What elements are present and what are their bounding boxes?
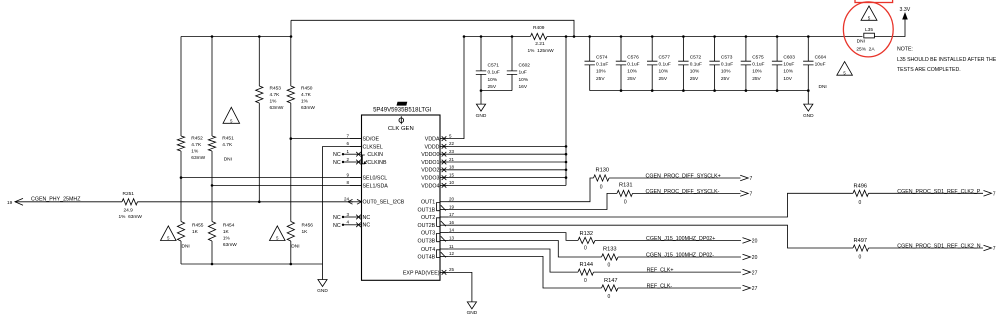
svg-text:VDDO3: VDDO3 [421,176,439,182]
svg-text:24: 24 [344,197,350,202]
svg-text:0.1uF: 0.1uF [690,62,702,68]
wire OUT1B feed [448,193,617,209]
svg-text:R144: R144 [580,262,594,268]
svg-text:OUT1: OUT1 [421,200,435,206]
svg-text:OUT3B: OUT3B [418,238,436,244]
svg-text:0.1uF: 0.1uF [721,62,733,68]
svg-text:CGEN_PROC_SD1_REF_CLK2_P: CGEN_PROC_SD1_REF_CLK2_P [897,189,980,195]
svg-text:10%: 10% [783,69,793,75]
wire R130 to port [609,177,741,179]
wire cap bank bottom rail [590,90,809,92]
svg-text:63mW: 63mW [223,242,237,248]
svg-text:13: 13 [449,235,455,240]
wire OUT2B to R497 [448,225,853,248]
svg-text:1%: 1% [223,236,231,242]
port 7 sd1 clk2 p [984,191,992,197]
wire left gnd rail [181,263,323,265]
svg-text:5P49V5935B518LTGI: 5P49V5935B518LTGI [373,108,432,114]
svg-text:CGEN_PROC_DIFF_SYSCLK+: CGEN_PROC_DIFF_SYSCLK+ [646,173,721,179]
svg-text:C573: C573 [721,55,733,61]
junction at 566,154 [565,153,568,156]
wire OUT4B feed [448,256,602,288]
resistor R455 [177,222,184,242]
svg-text:0: 0 [608,294,611,300]
svg-text:27: 27 [752,286,758,292]
svg-text:R452: R452 [191,136,203,142]
junction at 777,91 [776,89,779,92]
capacitor C572 [678,37,688,91]
svg-text:R497: R497 [854,238,868,244]
svg-text:NC: NC [363,215,371,221]
DNI flag triangle near R456 [270,226,286,241]
junction at 291,139 [290,137,293,140]
svg-text:OUT1B: OUT1B [418,207,436,213]
wire VDDA node rail [464,36,530,38]
wire rail jog at x291 [290,20,292,36]
svg-text:1K: 1K [302,229,309,235]
svg-text:GND: GND [467,310,478,316]
svg-text:CGEN_J15_100MHZ_DP02+: CGEN_J15_100MHZ_DP02+ [646,236,715,242]
wire VDD pin to bus [448,145,566,147]
svg-text:10uF: 10uF [815,62,826,68]
svg-text:SEL0/SCL: SEL0/SCL [363,176,388,182]
svg-text:10%: 10% [519,77,529,83]
svg-text:NC: NC [333,215,341,221]
svg-text:7: 7 [993,246,996,252]
wire OUT3B feed [448,241,602,258]
capacitor C571 [476,37,486,91]
svg-text:1K: 1K [192,229,199,235]
port 7 sysclk- [740,191,748,197]
junction at 212,36 [211,35,214,38]
junction at 291,36 [290,35,293,38]
wire OUT4 feed [448,249,578,272]
svg-text:4.7K: 4.7K [191,142,202,148]
svg-text:SEL1/SDA: SEL1/SDA [363,183,389,189]
wire R144 to port [594,271,742,273]
ground GND exp pad [467,302,476,309]
wire upper 3.3V link [291,20,574,36]
svg-text:4.7K: 4.7K [301,92,312,98]
junction at 715,91 [713,89,716,92]
svg-text:7: 7 [750,192,753,198]
junction at 259,36 [258,35,261,38]
svg-text:20: 20 [752,255,758,261]
svg-text:0: 0 [624,200,627,206]
svg-text:DNI: DNI [857,39,865,45]
svg-text:CLK GEN: CLK GEN [388,126,414,132]
svg-text:VDDO4: VDDO4 [421,183,439,189]
svg-text:2.21: 2.21 [535,41,545,47]
svg-text:10%: 10% [690,69,700,75]
wire C571-C602 bottom [481,90,512,92]
svg-text:25V: 25V [752,76,761,82]
wire VDD pin to bus [448,177,566,179]
svg-text:C602: C602 [519,62,531,68]
junction at 746,36 [745,35,748,38]
svg-text:27: 27 [752,270,758,276]
wire VDD pin to bus [448,153,566,155]
red highlight rectangle (cut off at top) [855,0,893,3]
svg-text:3.3V: 3.3V [900,7,911,13]
svg-text:20: 20 [449,197,455,202]
junction at 181,178 [180,176,183,179]
svg-text:NC: NC [333,223,341,229]
svg-text:14: 14 [449,227,455,232]
resistor R496 [853,190,869,196]
red highlight ellipse [843,2,893,57]
junction at 683,91 [682,89,685,92]
svg-text:DNI: DNI [819,84,827,90]
svg-text:R496: R496 [854,183,868,189]
svg-text:C603: C603 [783,55,795,61]
svg-text:OUT4B: OUT4B [418,254,436,260]
svg-text:NC: NC [363,223,371,229]
svg-text:C577: C577 [659,55,671,61]
ground GND below C571 [476,91,485,112]
svg-text:CLKSEL: CLKSEL [363,144,383,150]
svg-text:C572: C572 [690,55,702,61]
port 7 sd1 clk2 n [984,245,992,251]
wire R496 to port [869,192,984,194]
wire input to R251 [15,201,122,203]
resistor R454 [208,222,215,242]
svg-text:10%: 10% [752,69,762,75]
svg-text:25V: 25V [627,76,636,82]
svg-text:GND: GND [803,113,814,119]
svg-text:C604: C604 [815,55,827,61]
port 20 dp02- [743,254,751,260]
wire R133 to port [618,256,741,258]
svg-text:1K: 1K [223,229,230,235]
svg-text:GND: GND [317,288,328,294]
svg-text:24.9: 24.9 [124,207,134,213]
resistor R497 [853,245,869,251]
junction at 652,36 [651,35,654,38]
svg-text:CLKINB: CLKINB [367,160,387,166]
junction at 808,36 [807,35,810,38]
svg-text:20: 20 [752,239,758,245]
svg-text:OUT0_SEL_I2CB: OUT0_SEL_I2CB [363,200,405,206]
port 20 dp02+ [743,238,751,244]
resistor R251 [122,199,138,205]
svg-text:25V: 25V [690,76,699,82]
junction at 746,91 [745,89,748,92]
svg-text:R453: R453 [270,86,282,92]
svg-text:TESTS ARE COMPLETED.: TESTS ARE COMPLETED. [897,67,961,73]
wire OUT2 to R496 [448,193,853,217]
svg-text:CGEN_J15_100MHZ_DP02-: CGEN_J15_100MHZ_DP02- [646,253,714,259]
svg-text:10%: 10% [596,69,606,75]
svg-text:25V: 25V [721,76,730,82]
junction at 464,36 [463,35,466,38]
svg-text:GND: GND [476,113,487,119]
svg-text:OUT2: OUT2 [421,215,435,221]
DNI flag triangle near R455 [161,226,177,241]
junction at 621,91 [620,89,623,92]
svg-text:REF_CLK-: REF_CLK- [647,284,673,290]
ground GND left network [318,264,327,287]
wire col291 bottom [290,241,292,264]
svg-text:63mW: 63mW [270,105,284,111]
capacitor C602 [507,37,517,91]
capacitor C576 [616,37,626,91]
wire R497 to port [869,247,984,249]
svg-text:0: 0 [584,245,587,251]
capacitor C603 [772,37,782,91]
svg-text:10%: 10% [659,69,669,75]
svg-text:CLKIN: CLKIN [367,152,383,158]
svg-text:22: 22 [449,141,455,146]
svg-text:11: 11 [449,244,454,249]
ground GND below C604 [804,91,813,112]
svg-text:L35: L35 [865,27,873,33]
svg-text:VDDO1: VDDO1 [421,160,439,166]
svg-text:10: 10 [449,180,455,185]
svg-text:C576: C576 [627,55,639,61]
output pair bracket [437,218,440,227]
svg-text:23: 23 [449,149,455,154]
junction at 212,264 [211,263,214,266]
svg-text:10%: 10% [721,69,731,75]
svg-text:OUT4: OUT4 [421,247,435,253]
svg-text:19: 19 [7,200,13,206]
svg-text:63mW: 63mW [301,105,315,111]
svg-text:0: 0 [859,200,862,206]
wire VDD bus riser [565,37,567,186]
svg-text:DNI: DNI [291,244,299,250]
svg-text:CGEN_PROC_SD1_REF_CLK2_N: CGEN_PROC_SD1_REF_CLK2_N [897,244,980,250]
svg-text:25V: 25V [596,76,605,82]
svg-text:R251: R251 [123,191,135,197]
svg-text:REF_CLK+: REF_CLK+ [647,268,674,274]
svg-text:R450: R450 [301,86,313,92]
junction at 566,162 [565,161,568,164]
wire VDD pin to bus [448,161,566,163]
svg-text:7: 7 [993,192,996,198]
wire col291 top [290,37,292,87]
wire left pullup rail [181,36,291,38]
svg-text:R147: R147 [604,278,618,284]
svg-text:0.1uF: 0.1uF [596,62,608,68]
svg-text:R454: R454 [223,223,235,229]
svg-text:VDDO2: VDDO2 [421,168,439,174]
wire R131 to port [633,192,741,194]
wire col181 mid [180,151,182,222]
wire bead to 3.3V [875,20,906,37]
svg-text:VDDO0: VDDO0 [421,152,439,158]
svg-text:1%: 1% [191,149,199,155]
port 7 sysclk+ [740,175,748,181]
wire SD/OE [291,138,362,140]
wire col212 top [211,37,213,137]
wire R147 to port [618,287,741,289]
svg-text:R451: R451 [222,136,234,142]
svg-text:4.7K: 4.7K [270,92,281,98]
wire main 3.3V_CGEN rail [547,36,863,38]
wire col259 top [258,37,260,87]
op IC U1 5P49V5935B518LTGI clock generator [362,115,441,280]
svg-text:10V: 10V [783,76,792,82]
svg-text:R456: R456 [302,223,314,229]
svg-text:0.1uF: 0.1uF [659,62,671,68]
resistor R409 [530,33,547,39]
wire VDD pin to bus [448,169,566,171]
wire col212 mid [211,151,213,222]
svg-text:1% 125mW: 1% 125mW [528,48,555,54]
capacitor C573 [709,37,719,91]
svg-text:16: 16 [449,220,455,225]
svg-text:0: 0 [584,278,587,284]
junction at 512,36 [511,35,514,38]
capacitor C604 [803,37,813,91]
capacitor C575 [741,37,751,91]
svg-text:0: 0 [600,184,603,190]
wire OUT3 feed [448,233,578,241]
svg-text:CGEN_PROC_DIFF_SYSCLK-: CGEN_PROC_DIFF_SYSCLK- [646,189,720,195]
svg-text:0: 0 [608,262,611,268]
output pair bracket [437,203,440,211]
svg-text:OUT2B: OUT2B [418,223,436,229]
junction at 574,36 [573,35,576,38]
junction at 566,170 [565,169,568,172]
wire col291 mid [290,103,292,222]
svg-text:16V: 16V [519,84,528,90]
svg-text:R455: R455 [192,223,204,229]
wire EXP pad to gnd [448,272,472,302]
svg-text:R131: R131 [619,183,633,189]
svg-text:25V: 25V [659,76,668,82]
port 27 ref clk+ [743,269,751,275]
DNI flag triangle near C604 [837,62,853,76]
output pair bracket [437,250,440,258]
svg-text:18: 18 [449,165,455,170]
svg-text:5: 5 [868,16,871,21]
svg-text:NC: NC [333,152,341,158]
wire col212 bottom [211,241,213,264]
svg-text:25: 25 [449,267,455,272]
svg-text:R132: R132 [580,231,594,237]
svg-text:21: 21 [449,157,455,162]
port 19 CGEN_PHY_25MHZ [15,198,23,205]
svg-text:C575: C575 [752,55,764,61]
power 3.3V [902,12,908,20]
junction at 652,91 [651,89,654,92]
svg-text:OUT3: OUT3 [421,231,435,237]
svg-text:25% 2A: 25% 2A [856,46,875,52]
junction at 777,36 [776,35,779,38]
svg-text:NC: NC [333,160,341,166]
svg-text:4.7K: 4.7K [222,142,233,148]
wire VDDA to filter node [448,37,464,139]
svg-text:0.1uF: 0.1uF [627,62,639,68]
junction at 291,264 [290,263,293,266]
junction at 683,36 [682,35,685,38]
svg-text:VDDD: VDDD [424,144,439,150]
svg-text:10%: 10% [488,77,498,83]
wire SEL1/SDA [212,184,362,186]
wire R132 to port [595,239,741,241]
pin 24 bidirectional arrow [348,199,362,204]
junction at 259,202 [258,201,261,204]
CLKIN/CLKINB differential bracket [362,155,365,164]
oscillator glyph [399,118,404,123]
svg-text:EXP PAD(VEE): EXP PAD(VEE) [403,270,440,276]
wire CLKSEL to gnd [322,146,324,264]
svg-text:DNI: DNI [224,157,232,163]
junction at 212,185 [211,184,214,187]
junction at 566,178 [565,176,568,179]
svg-text:C574: C574 [596,55,608,61]
svg-text:1% 63mW: 1% 63mW [119,214,143,220]
svg-text:SD/OE: SD/OE [363,137,380,143]
junction at 566,146 [565,145,568,148]
svg-text:10%: 10% [627,69,637,75]
svg-text:25V: 25V [488,84,497,90]
junction at 481,91 [480,89,483,92]
svg-text:10uF: 10uF [783,62,794,68]
svg-text:19: 19 [449,204,455,209]
svg-text:0: 0 [859,255,862,261]
wire CLKSEL [323,145,362,147]
junction at 566,36 [565,35,568,38]
svg-text:15: 15 [449,172,455,177]
svg-text:0.1uF: 0.1uF [752,62,764,68]
DNI flag triangle near R451 [223,107,240,123]
svg-text:1%: 1% [270,99,278,105]
svg-text:NOTE:: NOTE: [897,47,913,53]
svg-text:VDDA: VDDA [425,137,440,143]
junction at 481,36 [480,35,483,38]
DNI flag triangle in red ellipse [861,6,877,20]
svg-text:0.1uF: 0.1uF [488,70,500,76]
resistor R456 [287,222,294,242]
capacitor C577 [647,37,657,91]
output pair bracket [437,233,440,241]
wire VDD pin to bus [448,184,566,186]
capacitor C574 [585,37,595,91]
svg-text:12: 12 [449,251,455,256]
svg-text:17: 17 [449,212,455,217]
wire col181 bottom [180,241,182,264]
wire OUT1 feed [448,178,594,202]
wire col259 bottom [258,103,260,202]
junction at 590,36 [588,35,591,38]
junction at 715,36 [713,35,716,38]
wire SEL0/SCL [181,177,362,179]
wire R251 to OUT0_SEL pin [138,201,354,203]
junction at 621,36 [620,35,623,38]
IC logo mark [397,102,408,106]
svg-text:1uF: 1uF [519,70,527,76]
svg-text:R133: R133 [603,246,617,252]
wire col181 top [180,37,182,137]
svg-text:R130: R130 [596,167,610,173]
svg-text:C571: C571 [488,62,500,68]
junction at 808,91 [807,89,810,92]
svg-text:L35 SHOULD BE INSTALLED AFTER: L35 SHOULD BE INSTALLED AFTER THE [897,57,997,63]
svg-text:63mW: 63mW [191,155,205,161]
svg-text:R409: R409 [533,25,545,31]
svg-text:7: 7 [750,176,753,182]
svg-text:DNI: DNI [182,244,190,250]
svg-text:1%: 1% [301,99,309,105]
port 27 ref clk- [743,285,751,291]
